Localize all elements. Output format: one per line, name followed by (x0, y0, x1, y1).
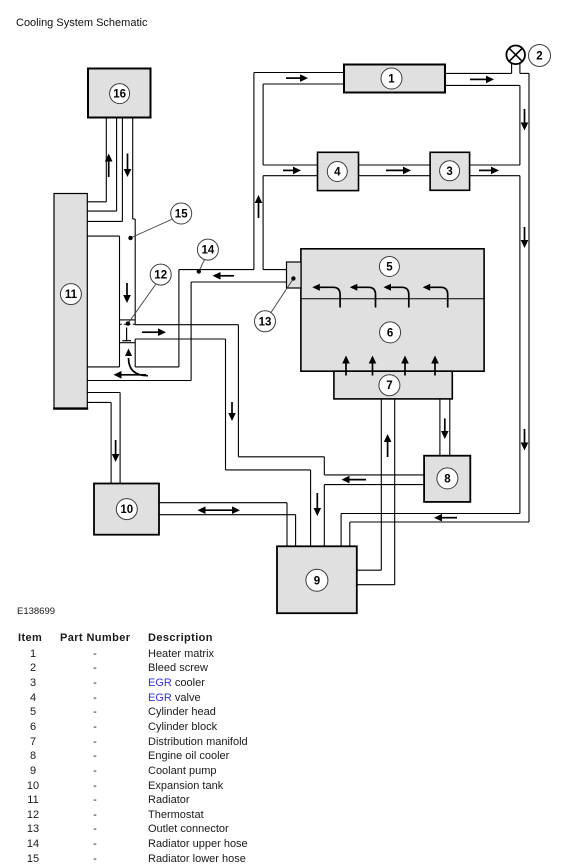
thermostat 12 stem (126, 328, 128, 342)
callout 3 EGR cooler (440, 161, 460, 181)
figure code E138699 (17, 606, 55, 617)
pipe wall: oil cooler feed right (449, 399, 451, 456)
pipe wall: return channel top right (135, 366, 179, 368)
distribution manifold box 7 (334, 371, 452, 399)
coolant pump box 9 (277, 546, 357, 613)
pipe wall: tank feed right (119, 393, 121, 484)
pipe wall: tank feed left (110, 402, 112, 483)
flow arrow: thermostat bypass right (142, 328, 166, 336)
pipe wall: top channel lower, right of box1 (445, 84, 520, 86)
engine cylinder head/block box 5-6 (301, 249, 484, 371)
pipe wall: right-pump link top (341, 513, 520, 515)
pipe wall: bypass drop right (237, 325, 239, 457)
pipe wall: outlet channel top left (179, 269, 254, 271)
svg-text:7: 7 (386, 380, 392, 392)
svg-text:3: 3 (446, 166, 452, 178)
table rows (0, 0, 1, 1)
svg-text:2: 2 (536, 51, 542, 63)
pipe wall: manifold riser left (380, 399, 382, 570)
pipe wall: EGR 4-3 lower (359, 175, 431, 177)
pipe wall: outlet channel bottom (191, 281, 286, 283)
flow arrow: head hook at x=447.7 (423, 284, 448, 308)
pipe wall: pump inlet2 left (310, 470, 312, 546)
flow arrow: outlet connector left (213, 272, 235, 280)
svg-text:14: 14 (202, 245, 215, 257)
callout 5 cylinder head (379, 257, 399, 277)
pipe wall: left riser inner upper (262, 84, 264, 165)
flow arrow: tank-pump double (198, 506, 241, 514)
flow arrow: trunk down to thermostat (123, 283, 131, 303)
flow arrow: box16 pipe down (124, 154, 132, 178)
svg-text:16: 16 (113, 89, 126, 101)
head/block divider (301, 298, 484, 300)
pipe wall: right main channel inner upper (519, 85, 521, 165)
pipe wall: right-pump link bottom (350, 521, 529, 523)
callout 8 engine oil cooler (437, 468, 458, 489)
flow arrow: manifold into block at x=405 (401, 356, 409, 376)
engine oil cooler box 8 (424, 456, 470, 502)
pipe wall: thermostat trunk left (119, 236, 121, 367)
callout 2 bleed screw (529, 45, 551, 67)
pipe wall: bleed screw stub right (519, 64, 521, 73)
pipe wall: box16 right pipe right (132, 118, 134, 220)
flow arrow: left riser up (255, 195, 263, 218)
callout 12 thermostat (150, 264, 171, 285)
svg-text:5: 5 (386, 262, 393, 274)
flow arrow: right channel down lower (521, 429, 529, 451)
callout 13 outlet connector (255, 311, 276, 332)
callout 14 radiator upper hose (197, 239, 218, 260)
flow arrow: EGR cooler out (479, 167, 499, 175)
flow arrow: to EGR valve (283, 167, 301, 175)
svg-text:8: 8 (444, 473, 451, 485)
pipe wall: pump inlet3 left (340, 514, 342, 547)
pipe wall: manifold riser right (394, 399, 396, 585)
flow arrow: manifold into block at x=435 (431, 356, 439, 376)
callout 9 coolant pump (306, 569, 328, 591)
pipe wall: top channel upper, right of box1 to bleed stub (445, 72, 512, 74)
pipe wall: tank-pump bottom (159, 514, 296, 516)
flow arrow: pump to manifold up (384, 434, 392, 457)
EGR cooler box 3 (430, 152, 470, 190)
pipe wall: upper hose drop right (190, 282, 192, 381)
flow arrow: head hook at x=340.1 (312, 284, 340, 308)
pipe wall: pump inlet2 right upper (323, 457, 325, 475)
pipe wall: left riser outer (253, 73, 255, 270)
pipe wall: pump outlet bottom (357, 584, 395, 586)
flow arrow: manifold into block at x=372.5 (369, 356, 377, 376)
svg-text:9: 9 (314, 575, 320, 587)
pipe wall: box16 right pipe left (121, 118, 123, 222)
pipe wall: bypass bottom (135, 338, 225, 340)
outlet connector box 13 (287, 262, 302, 288)
heater matrix box 1 (344, 65, 445, 93)
pipe wall: EGR 4-3 upper (359, 164, 431, 166)
pipe wall: return channel bottom (87, 380, 191, 382)
flow arrow: head hook at x=375.5 (350, 284, 376, 308)
svg-text:15: 15 (175, 209, 188, 221)
callout 1 heater matrix (381, 68, 402, 89)
pipe wall: return channel top left (87, 366, 119, 368)
pipe wall: top channel upper stub to corner (520, 72, 529, 74)
table header (18, 632, 42, 644)
pipe wall: radiator port1 bottom (87, 210, 116, 212)
flow arrow: right channel to pump (434, 514, 457, 522)
pipe wall: bypass top (135, 324, 238, 326)
callout 6 cylinder block (380, 322, 401, 343)
leader line to outlet connector 13 (271, 276, 296, 312)
thermostat 12 top line (120, 319, 136, 321)
pipe wall: oil cooler feed left (439, 399, 441, 456)
flow arrow: curved branch up into thermostat (125, 349, 148, 376)
flow arrow: box16 pipe up (105, 154, 113, 178)
pipe wall: EGR feed upper (263, 164, 317, 166)
flow arrow: manifold to oil cooler (441, 419, 449, 440)
flow arrow: EGR valve to cooler (386, 167, 411, 175)
pipe wall: outlet channel top right (263, 269, 286, 271)
pipe wall: EGR return lower (470, 175, 520, 177)
flow arrow: right channel down upper (521, 109, 529, 131)
pipe wall: bypass lower bottom (226, 469, 311, 471)
callout 7 distribution manifold (379, 375, 400, 396)
flow arrow: heater matrix out (470, 76, 494, 84)
flow arrow: pump inlet2 down (314, 493, 322, 516)
pipe wall: radiator outlet top (87, 392, 120, 394)
pipe wall: top channel lower, left of box1 (263, 83, 344, 85)
pipe wall: EGR feed lower (263, 175, 317, 177)
svg-text:11: 11 (65, 289, 78, 301)
bleed screw symbol 2 (506, 46, 525, 65)
callout 16 (110, 84, 130, 104)
pipe wall: tank-pump drop left (286, 503, 288, 547)
pipe wall: bypass lower top (238, 456, 324, 458)
radiator bottom edge (53, 407, 88, 409)
callout 4 EGR valve (327, 162, 347, 182)
pipe wall: oil cooler link top (324, 474, 424, 476)
flow arrow: manifold into block at x=346 (342, 356, 350, 376)
thermostat 12 dashed valve line (120, 323, 136, 325)
svg-text:6: 6 (387, 327, 393, 339)
pipe wall: tank-pump drop right (295, 515, 297, 547)
pipe wall: right main channel inner lower (519, 176, 521, 514)
pipe wall: radiator port1 top (87, 201, 106, 203)
flow arrow: oil cooler out left (342, 476, 367, 484)
pipe wall: thermostat trunk right lower (134, 339, 136, 367)
pipe wall: box16 left pipe inner (116, 118, 118, 212)
callout 10 expansion tank (116, 499, 137, 520)
pipe wall: bypass drop left (225, 339, 227, 470)
svg-text:13: 13 (259, 316, 272, 328)
svg-text:12: 12 (154, 270, 167, 282)
pipe wall: radiator port3 bottom (87, 235, 119, 237)
pipe wall: bleed screw stub left (511, 64, 513, 73)
pipe wall: left riser inner lower (262, 176, 264, 270)
pipe wall: right main channel outer (528, 73, 530, 522)
flow arrow: head hook at x=408.8 (384, 284, 409, 308)
pipe wall: top channel upper, left of box1 (254, 72, 344, 74)
pipe wall: tank-pump top (159, 502, 287, 504)
callout 15 radiator lower hose (171, 203, 192, 224)
pipe wall: radiator port2 bottom (87, 220, 122, 222)
pipe wall: pump outlet top (357, 569, 382, 571)
flow arrow: to heater matrix (286, 74, 308, 82)
flow arrow: right channel down middle (521, 227, 529, 248)
pipe wall: oil cooler link bottom (324, 484, 424, 486)
box 16 auxiliary heater (88, 69, 151, 118)
pipe wall: box16 left pipe outer (105, 118, 107, 202)
flow arrow: bypass down (228, 402, 236, 421)
callout 11 radiator (60, 284, 81, 305)
flow arrow: radiator to tank (112, 440, 120, 462)
thermostat 12 stem bar (122, 340, 131, 342)
pipe wall: jog step (133, 218, 136, 220)
radiator box 11 (54, 194, 87, 409)
pipe wall: pump inlet2 right lower (323, 485, 325, 547)
title (16, 17, 147, 29)
pipe wall: radiator outlet bottom (87, 401, 111, 403)
leader line to upper hose 14 (197, 260, 205, 274)
leader line to lower hose 15 (128, 219, 172, 240)
pipe wall: EGR return upper (470, 164, 520, 166)
svg-text:4: 4 (334, 167, 341, 179)
pipe wall: thermostat trunk right upper (134, 219, 136, 325)
svg-text:10: 10 (120, 504, 133, 516)
EGR valve box 4 (318, 152, 359, 190)
pipe wall: upper hose drop left (178, 270, 180, 367)
svg-text:1: 1 (388, 74, 395, 86)
expansion tank box 10 (94, 484, 159, 535)
pipe wall: pump inlet3 right (349, 522, 351, 546)
flow arrow: return to radiator (114, 371, 147, 379)
thermostat 12 bottom line (120, 342, 136, 344)
leader line to thermostat 12 (126, 285, 156, 326)
